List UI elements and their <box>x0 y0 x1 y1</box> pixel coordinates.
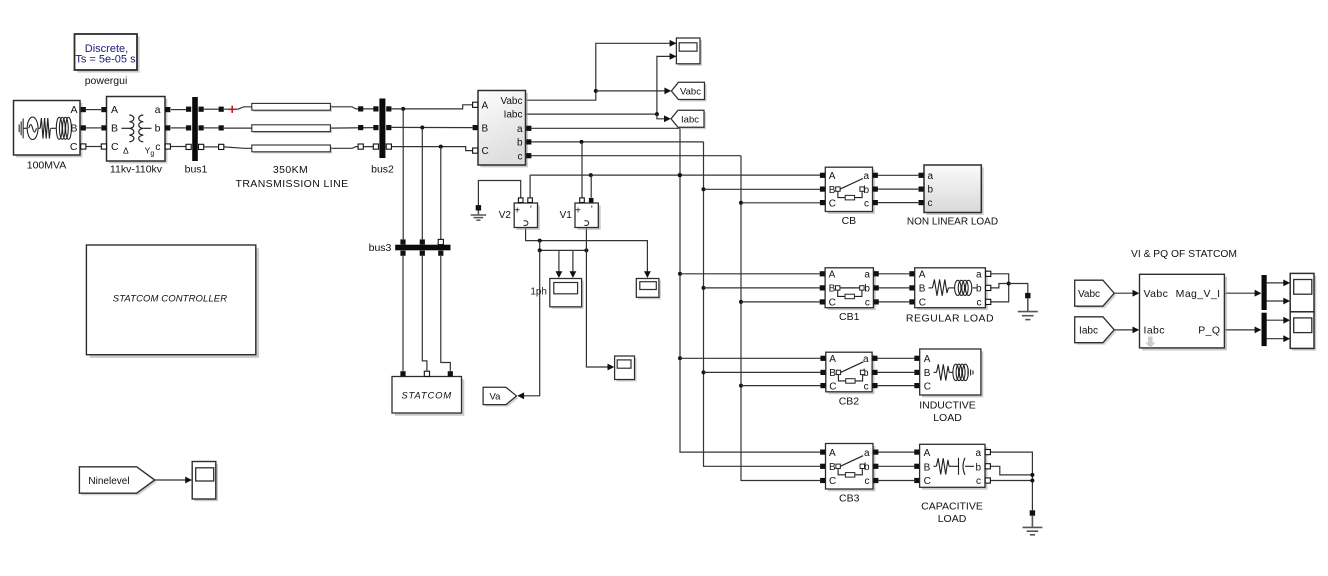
svg-text:a: a <box>864 448 870 459</box>
wire bus2 phase a to measurement A with junction <box>391 105 472 109</box>
svg-text:P_Q: P_Q <box>1198 325 1220 337</box>
svg-text:REGULAR LOAD: REGULAR LOAD <box>906 313 994 325</box>
circuit breaker CB3 <box>828 446 876 492</box>
svg-text:Mag_V_I: Mag_V_I <box>1176 288 1221 300</box>
STATCOM ports <box>400 371 405 376</box>
svg-text:b: b <box>976 284 982 295</box>
wire net phase-a to CB A input (from V2 minus terminal) <box>530 174 820 176</box>
svg-text:A: A <box>919 270 926 281</box>
svg-text:A: A <box>829 448 836 459</box>
wire CB1 outputs to REGULAR LOAD <box>879 273 910 275</box>
wire to scope3 <box>586 250 609 367</box>
voltage measurement V1 <box>577 205 600 230</box>
bus2 bar <box>379 99 385 159</box>
scope2 small <box>638 281 661 300</box>
svg-text:Iabc: Iabc <box>1079 326 1098 337</box>
ground symbol for capacitive load <box>1030 510 1035 515</box>
svg-text:A: A <box>482 100 489 111</box>
NON LINEAR LOAD block <box>926 167 983 215</box>
wire drops into 1ph scope <box>558 250 560 273</box>
1ph scope block <box>552 281 584 309</box>
From tag Ninelevel <box>81 469 156 495</box>
measurement output ports <box>526 126 531 131</box>
wire Mag_V_I to mux <box>1224 292 1256 294</box>
svg-text:c: c <box>977 298 982 309</box>
From tag Vabc right <box>1077 282 1117 308</box>
red unconnected marker <box>229 106 236 113</box>
voltage measurement V2 <box>517 205 540 230</box>
svg-text:b: b <box>928 185 934 196</box>
wire V1 minus up to phase-a net <box>590 175 592 198</box>
svg-text:C: C <box>829 381 836 392</box>
svg-text:g: g <box>150 151 154 158</box>
svg-text:INDUCTIVE: INDUCTIVE <box>919 400 976 412</box>
goto tag Iabc <box>673 112 706 129</box>
svg-text:350KM: 350KM <box>273 164 308 176</box>
svg-text:V2: V2 <box>499 210 512 221</box>
wire transformer a-b-c to bus1 <box>171 109 186 111</box>
svg-text:A: A <box>924 354 931 365</box>
svg-text:C: C <box>111 141 119 153</box>
svg-text:CAPACITIVE: CAPACITIVE <box>921 501 983 513</box>
svg-text:C: C <box>829 298 836 309</box>
powergui block <box>77 37 140 73</box>
svg-text:CB2: CB2 <box>839 395 860 407</box>
wire to CB1 inputs <box>680 273 820 275</box>
svg-text:Δ: Δ <box>123 146 129 156</box>
svg-text:B: B <box>829 185 836 196</box>
wire From Iabc to VIPQ subsystem <box>1114 329 1134 331</box>
wire to CB B input <box>704 188 821 190</box>
svg-text:bus3: bus3 <box>369 242 392 254</box>
bus3 bar <box>395 245 450 251</box>
measurement input ports <box>473 102 478 107</box>
bus2 ports <box>373 106 378 111</box>
wire feeder phase a down to bus3 <box>402 109 404 239</box>
svg-text:c: c <box>865 476 870 487</box>
wire CB2 outputs to INDUCTIVE LOAD <box>877 357 914 359</box>
svg-text:NON LINEAR LOAD: NON LINEAR LOAD <box>907 217 998 228</box>
svg-text:A: A <box>70 104 77 116</box>
svg-text:a: a <box>864 270 870 281</box>
svg-text:a: a <box>928 171 934 182</box>
STATCOM block <box>395 379 465 416</box>
svg-text:STATCOM: STATCOM <box>401 391 452 402</box>
scope3 small <box>617 358 637 382</box>
wire Ninelevel tag to scope <box>155 479 187 481</box>
REGULAR LOAD block <box>917 270 988 310</box>
bus1 bar <box>192 97 198 161</box>
svg-text:Iabc: Iabc <box>681 114 699 125</box>
svg-text:B: B <box>829 284 836 295</box>
wire measurement a output to feeder A <box>532 127 681 129</box>
wire feeder phase c down to bus3 <box>440 147 442 240</box>
svg-text:A: A <box>924 448 931 459</box>
svg-text:C: C <box>924 476 931 487</box>
source 100MVA block <box>16 103 83 157</box>
wire CB3 outputs to CAPACITIVE LOAD <box>878 451 914 453</box>
svg-text:C: C <box>482 146 489 157</box>
transformer 11kv-110kv block <box>109 99 167 163</box>
svg-text:100MVA: 100MVA <box>27 160 67 172</box>
svg-text:Ninelevel: Ninelevel <box>88 476 129 487</box>
STATCOM CONTROLLER block <box>90 248 259 358</box>
svg-text:LOAD: LOAD <box>933 412 962 424</box>
svg-text:c: c <box>928 198 933 209</box>
svg-text:B: B <box>919 284 926 295</box>
svg-text:B: B <box>924 462 931 473</box>
feeder A vertical <box>680 128 820 452</box>
three-phase VI measurement block <box>480 93 528 167</box>
transmission line segment 2 <box>253 126 332 133</box>
goto tag Vabc <box>673 84 706 101</box>
transformer input ports <box>101 107 106 112</box>
svg-text:Vabc: Vabc <box>680 87 701 98</box>
wire P_Q to mux <box>1224 329 1256 331</box>
wire source A-B-C to transformer <box>86 109 101 111</box>
svg-text:C: C <box>919 298 926 309</box>
transformer output ports <box>165 107 170 112</box>
transmission line segment 1 <box>253 105 332 112</box>
wire transmission lines to bus2 <box>330 107 373 109</box>
scope block top <box>678 40 702 66</box>
wire to CB2 inputs <box>680 357 821 359</box>
svg-text:a: a <box>976 270 982 281</box>
feeder B vertical <box>704 142 821 466</box>
wire CB outputs to NON LINEAR LOAD <box>878 174 919 176</box>
svg-text:c: c <box>155 141 160 153</box>
wire CAPACITIVE LOAD outputs to ground node <box>991 452 1033 510</box>
svg-text:C: C <box>924 381 931 392</box>
svg-text:C: C <box>70 141 78 153</box>
wire measurement b output to feeder B <box>532 141 704 143</box>
svg-text:STATCOM CONTROLLER: STATCOM CONTROLLER <box>113 294 227 305</box>
feeder C vertical <box>741 156 820 481</box>
mux selector bar 1 <box>1262 275 1267 310</box>
svg-text:c: c <box>976 476 981 487</box>
transmission line segment 3 <box>253 147 332 154</box>
svg-text:+: + <box>514 206 520 217</box>
svg-text:b: b <box>517 138 523 149</box>
wire bus2 phase c to measurement C <box>391 147 472 151</box>
circuit breaker CB1 <box>828 270 876 310</box>
svg-text:': ' <box>591 205 593 216</box>
svg-text:a: a <box>863 354 869 365</box>
ground symbol for regular load <box>1025 293 1030 298</box>
wire to Va goto tag <box>523 250 540 395</box>
source output ports <box>81 107 86 112</box>
svg-text:c: c <box>865 298 870 309</box>
svg-text:Vabc: Vabc <box>1144 288 1169 300</box>
wire V2 minus up to phase-a net <box>529 175 531 198</box>
wire bus3 to STATCOM ports <box>402 256 404 371</box>
wire measurement c output to feeder C <box>532 155 742 157</box>
svg-text:CB3: CB3 <box>839 493 860 505</box>
svg-text:': ' <box>530 205 532 216</box>
svg-text:b: b <box>975 462 981 473</box>
transmission line output ports <box>358 106 363 111</box>
svg-text:Vabc: Vabc <box>1078 289 1100 300</box>
svg-text:11kv-110kv: 11kv-110kv <box>110 164 163 176</box>
wire feeder phase b down to bus3 <box>421 127 423 239</box>
svg-text:a: a <box>863 171 869 182</box>
svg-text:Vabc: Vabc <box>500 96 522 107</box>
svg-text:B: B <box>924 368 931 379</box>
wires mux outputs to scopes <box>1267 282 1285 284</box>
svg-text:VI & PQ OF STATCOM: VI & PQ OF STATCOM <box>1131 249 1237 260</box>
wire Vabc output to scope and goto tag <box>526 43 677 100</box>
svg-text:c: c <box>864 198 869 209</box>
wire bus1 to transmission lines <box>204 108 219 110</box>
scope6 <box>1292 314 1316 351</box>
svg-text:C: C <box>829 476 836 487</box>
svg-text:c: c <box>864 381 869 392</box>
svg-text:A: A <box>829 354 836 365</box>
INDUCTIVE LOAD block <box>922 351 983 397</box>
svg-text:bus1: bus1 <box>185 164 208 176</box>
svg-text:LOAD: LOAD <box>938 513 967 525</box>
wire V2 output to scopes and Va <box>526 228 648 274</box>
bus3 ports <box>400 239 405 244</box>
svg-text:V1: V1 <box>560 210 573 221</box>
wire bus2 phase b to measurement B <box>391 126 472 128</box>
svg-text:B: B <box>70 123 77 135</box>
goto tag Va <box>485 389 518 406</box>
svg-text:b: b <box>155 123 161 135</box>
wire measurement tap line <box>540 249 587 251</box>
svg-text:A: A <box>829 171 836 182</box>
wire REGULAR LOAD outputs to ground node <box>991 274 1009 284</box>
svg-text:B: B <box>111 123 118 135</box>
svg-text:B: B <box>829 368 836 379</box>
svg-text:a: a <box>155 104 161 116</box>
transmission line input ports <box>219 107 224 112</box>
circuit breaker CB <box>828 170 875 214</box>
svg-text:B: B <box>829 462 836 473</box>
svg-text:bus2: bus2 <box>371 164 394 176</box>
svg-text:CB: CB <box>842 215 857 227</box>
svg-text:Iabc: Iabc <box>504 110 523 121</box>
svg-text:TRANSMISSION LINE: TRANSMISSION LINE <box>236 178 349 190</box>
wire From Vabc to VIPQ subsystem <box>1114 292 1134 294</box>
svg-text:c: c <box>518 151 523 162</box>
VI and PQ subsystem block <box>1142 277 1227 351</box>
scope4 vertical <box>194 464 218 502</box>
From tag Iabc right <box>1077 319 1117 345</box>
svg-text:powergui: powergui <box>85 75 128 87</box>
svg-text:a: a <box>975 448 981 459</box>
svg-text:Va: Va <box>490 392 502 403</box>
wire V2 plus to ground <box>478 181 520 206</box>
svg-text:C: C <box>829 198 836 209</box>
wire Iabc output to scope and goto tag <box>526 56 677 114</box>
svg-text:A: A <box>111 104 118 116</box>
CAPACITIVE LOAD block <box>922 447 987 490</box>
svg-text:a: a <box>517 124 523 135</box>
scope5 <box>1292 276 1316 314</box>
svg-text:b: b <box>864 284 870 295</box>
bus1 ports <box>186 107 191 112</box>
svg-text:1ph: 1ph <box>530 287 547 298</box>
mux selector bar 2 <box>1262 313 1267 346</box>
circuit breaker CB2 <box>828 355 874 395</box>
svg-text:Iabc: Iabc <box>1144 325 1165 337</box>
svg-text:CB1: CB1 <box>839 311 860 323</box>
svg-text:+: + <box>575 206 581 217</box>
svg-text:B: B <box>482 123 489 134</box>
svg-text:Ts = 5e-05 s: Ts = 5e-05 s <box>75 54 136 66</box>
wire V1 plus up to phase-b wire <box>581 142 583 198</box>
wire V1 output down <box>585 228 587 251</box>
svg-text:A: A <box>829 270 836 281</box>
wire to CB C input <box>741 202 820 204</box>
ground symbol near V2 <box>476 205 481 210</box>
